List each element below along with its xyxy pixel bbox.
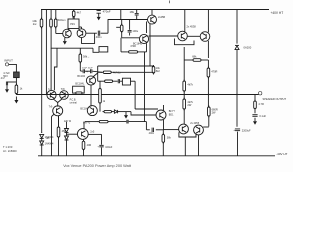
- wire vertical 1 lower: [41, 27, 43, 133]
- preset box3: [122, 78, 130, 85]
- ground zobel: [253, 118, 257, 125]
- terminal input jack: [5, 63, 8, 66]
- ground R5: [14, 97, 18, 104]
- resistor R20: [83, 139, 85, 141]
- wire TR3 emitter down: [146, 22, 148, 34]
- wire mid rail: [17, 94, 259, 96]
- trimmer wiper: [116, 26, 120, 28]
- pcb box: [73, 86, 85, 93]
- svg-text:SPEAKER OUTPUT: SPEAKER OUTPUT: [263, 97, 287, 101]
- capacitor C4 100u: [129, 20, 131, 30]
- wire vert97: [97, 66, 99, 81]
- wire feedback jog: [54, 48, 57, 90]
- terminal speaker: [259, 92, 262, 95]
- svg-text:+40V HT: +40V HT: [271, 11, 284, 15]
- wire TR12 down: [163, 120, 165, 130]
- svg-text:T 1 2V3: T 1 2V3: [3, 145, 13, 149]
- wire vertical 2: [45, 10, 47, 95]
- capacitor C3 18n: [136, 10, 138, 14]
- wire C1 top: [98, 10, 100, 11]
- wire: [83, 149, 85, 155]
- wire: [183, 109, 185, 124]
- svg-text:12K W: 12K W: [64, 120, 72, 123]
- svg-text:1k6: 1k6: [46, 137, 51, 140]
- wire: [183, 91, 185, 99]
- svg-text:470uF: 470uF: [103, 10, 111, 14]
- node out: [208, 94, 209, 95]
- svg-text:BD1: BD1: [169, 113, 174, 116]
- svg-text:2W: 2W: [212, 111, 216, 115]
- resistor R2: [50, 18, 53, 29]
- wire TR11 down: [90, 85, 92, 106]
- capacitor C13: [127, 120, 128, 124]
- wire driver base: [135, 108, 158, 110]
- diode D3: [65, 129, 69, 133]
- ground C1: [97, 13, 101, 20]
- wire TR15 down: [198, 135, 200, 156]
- ground arrow small: [124, 112, 128, 119]
- wire R7 top: [79, 48, 81, 54]
- wire R11 right: [203, 59, 209, 61]
- diode D2: [40, 141, 44, 145]
- resistor R23: [103, 110, 114, 112]
- transistor TR7: [47, 90, 56, 99]
- ground C6: [5, 86, 9, 93]
- wire row3 end: [131, 80, 136, 82]
- svg-text:400n: 400n: [149, 132, 155, 135]
- svg-text:PR1: PR1: [70, 23, 75, 26]
- preset box2: [99, 47, 108, 52]
- svg-text:-40V HT: -40V HT: [276, 152, 287, 156]
- diode D1: [40, 134, 44, 138]
- svg-text:BC184L: BC184L: [75, 83, 85, 86]
- wire left branch: [7, 81, 16, 83]
- wire zobel: [254, 95, 256, 102]
- wire TR4 collector to T5 pair: [149, 35, 178, 37]
- resistor R6: [74, 92, 83, 94]
- wire junction up: [107, 20, 109, 34]
- svg-text:18k: 18k: [130, 10, 135, 14]
- resistor R4 4k7: [72, 10, 75, 19]
- svg-text:10uF 10uF: 10uF 10uF: [82, 68, 93, 70]
- transistor TR11: [86, 76, 95, 85]
- resistor R17: [103, 80, 114, 82]
- svg-text:central: central: [70, 101, 78, 104]
- wire: [110, 121, 127, 123]
- transistor TR2: [77, 29, 86, 38]
- svg-text:40R: 40R: [87, 144, 92, 147]
- wire vertical 1: [41, 10, 43, 20]
- diode D5 0A200: [235, 45, 239, 49]
- wire row2: [98, 71, 102, 73]
- wire TR15 top: [203, 126, 209, 128]
- svg-text:INPUT: INPUT: [4, 58, 13, 62]
- wire: [208, 116, 210, 127]
- resistor R10 4k7: [102, 71, 113, 73]
- resistor R13: [208, 106, 211, 118]
- capacitor C7b: [91, 69, 92, 73]
- resistor R19: [58, 116, 60, 127]
- svg-text:4k7k: 4k7k: [187, 82, 193, 86]
- capacitor C8: [118, 79, 119, 83]
- svg-text:BC184: BC184: [77, 75, 85, 78]
- wire TR5-TR6 link: [187, 35, 200, 37]
- wire TR2 emitter loop: [82, 33, 95, 43]
- svg-text:Vox Venue PA200 Power Amp 200: Vox Venue PA200 Power Amp 200 Watt: [63, 164, 132, 168]
- wire TR12 up: [163, 105, 165, 110]
- wire feedback tap: [51, 47, 93, 49]
- svg-text:68k: 68k: [192, 54, 197, 58]
- svg-text:532om: 532om: [58, 18, 66, 22]
- diode D6: [114, 110, 117, 113]
- wire: [66, 133, 68, 137]
- wire TR14 down: [184, 137, 186, 156]
- artifact tick top: [169, 1, 171, 4]
- svg-text:100u: 100u: [132, 29, 138, 33]
- transistor TR5: [178, 31, 188, 41]
- wire TR3 collector: [151, 10, 153, 16]
- svg-text:1N4004: 1N4004: [45, 143, 54, 146]
- wire diode branch: [236, 10, 238, 44]
- wire TR1 base: [56, 33, 63, 35]
- wire row: [113, 111, 114, 113]
- resistor R12: [207, 60, 209, 68]
- transistor TR13: [77, 129, 88, 140]
- wire TR11 collector: [93, 73, 98, 77]
- transistor TR12: [156, 110, 166, 120]
- svg-text:4n7: 4n7: [1, 77, 6, 80]
- capacitor C9: [252, 115, 257, 117]
- wire box to TR2: [79, 26, 82, 28]
- capacitor C10 2200uF: [235, 129, 240, 131]
- wire TR4 emitter down: [146, 43, 148, 52]
- transistor TR15: [194, 125, 204, 135]
- transistor TR14: [179, 124, 189, 134]
- svg-text:100uF: 100uF: [105, 146, 113, 149]
- wire TR5 emitter loop: [175, 39, 195, 45]
- capacitor C11: [101, 134, 103, 144]
- wire R11 left: [184, 59, 191, 61]
- resistor R16 10R: [254, 100, 257, 111]
- wire RV1 top: [121, 20, 123, 26]
- wire: [207, 77, 209, 107]
- wire R4 top: [73, 10, 75, 12]
- wire row: [85, 121, 98, 123]
- svg-text:2x45B: 2x45B: [158, 16, 165, 19]
- svg-text:58k→: 58k→: [83, 55, 90, 59]
- node preset top: [73, 17, 75, 19]
- wire TR9 emitter left: [52, 114, 55, 117]
- wire rail B: [108, 19, 148, 21]
- capacitor C2 400n: [98, 31, 99, 36]
- svg-text:8k2: 8k2: [156, 70, 161, 73]
- transistor TR4 BC184L: [139, 34, 148, 43]
- resistor R3: [54, 18, 57, 29]
- capacitor C12 400n: [147, 129, 150, 131]
- transistor TR3: [148, 15, 157, 24]
- svg-text:+: +: [233, 128, 235, 132]
- wire TR6 collector up: [207, 10, 209, 33]
- wire TR13 base: [67, 133, 78, 135]
- resistor R7 58k: [79, 53, 82, 64]
- wire emitters join: [54, 99, 62, 103]
- wire diode chain: [66, 122, 68, 129]
- wire TR5 collector up: [184, 10, 186, 32]
- wire diode chain top: [41, 132, 43, 135]
- wire to base: [15, 94, 17, 95]
- wire vertical 4 lower: [55, 27, 57, 34]
- wire vertical 4: [55, 10, 57, 20]
- wire diode down: [236, 50, 238, 95]
- svg-text:2x 4538: 2x 4538: [187, 25, 197, 29]
- transistor TR1: [63, 29, 72, 38]
- svg-text:A=. 2x5000: A=. 2x5000: [3, 149, 17, 153]
- svg-text:4.7R: 4.7R: [258, 102, 264, 106]
- capacitor C5 input: [14, 72, 20, 78]
- wire RV1 down: [121, 32, 123, 38]
- wire to TR12 base: [131, 112, 156, 115]
- wire vertical 3 lower: [50, 27, 52, 91]
- wire row3: [98, 80, 104, 82]
- transistor TR10: [87, 106, 97, 116]
- diode D4: [65, 136, 69, 140]
- preset box PR1: [68, 19, 79, 29]
- svg-text:4k7: 4k7: [77, 10, 82, 14]
- wire input: [9, 64, 17, 72]
- svg-text:2x 4055: 2x 4055: [190, 122, 200, 125]
- svg-text:0.1uF: 0.1uF: [259, 114, 266, 118]
- wire row1: [98, 65, 154, 67]
- wire R8: [121, 51, 127, 53]
- capacitor C1 470uF: [97, 11, 101, 14]
- transistor TR8: [60, 91, 69, 100]
- wire: [237, 132, 239, 156]
- wire: [41, 138, 43, 141]
- wire: [15, 78, 17, 85]
- wire: [114, 80, 118, 82]
- transistor TR6: [200, 32, 210, 42]
- wire TR14-15 emitter loop: [179, 132, 196, 137]
- wire TR13 collector: [83, 122, 85, 129]
- wire TR9 down: [58, 116, 60, 128]
- svg-text:470R: 470R: [130, 45, 136, 48]
- wire R22 down: [99, 103, 101, 112]
- resistor RV1: [120, 24, 123, 34]
- resistor R11 68k: [192, 59, 203, 62]
- capacitor C6 4n7: [6, 82, 7, 86]
- wire: [58, 137, 60, 156]
- svg-text:400n: 400n: [96, 35, 102, 39]
- svg-text:470R: 470R: [211, 70, 217, 74]
- wire TR14 base: [163, 129, 178, 131]
- wire rail A to rail B: [120, 10, 122, 20]
- wire tail: [57, 103, 59, 107]
- wire +40V rail: [41, 9, 269, 11]
- wire: [236, 95, 238, 127]
- resistor R15: [183, 98, 186, 111]
- wire: [66, 140, 68, 156]
- resistor R14: [183, 80, 186, 93]
- svg-text:Tr9: Tr9: [49, 105, 53, 108]
- wire vertical 3: [50, 10, 52, 20]
- wire bottom rail: [38, 155, 275, 157]
- svg-text:2x5: 2x5: [90, 130, 95, 133]
- resistor R22 vertical: [99, 81, 101, 88]
- wire: [80, 70, 82, 72]
- wire corner to box: [93, 48, 99, 52]
- svg-text:2200uF: 2200uF: [242, 128, 251, 132]
- wire: [79, 62, 81, 71]
- resistor R8: [127, 51, 139, 53]
- wire: [41, 145, 43, 156]
- capacitor C7a: [83, 69, 84, 73]
- wire vert150: [149, 24, 151, 66]
- wire vert142: [144, 52, 146, 122]
- resistor R1 10k: [40, 18, 43, 29]
- wire vert146 low: [145, 122, 147, 130]
- wire vert135: [134, 81, 136, 109]
- wire RV1 to TR4 base: [122, 37, 140, 39]
- svg-text:0A200: 0A200: [244, 45, 252, 49]
- ground TR1 emitter: [63, 38, 67, 45]
- wire: [129, 121, 147, 123]
- wire cap to junction: [101, 32, 108, 34]
- wire: [254, 109, 256, 114]
- wire row2b: [113, 71, 154, 73]
- resistor R18: [98, 120, 110, 122]
- svg-text:2W: 2W: [187, 103, 191, 107]
- transistor TR9: [53, 106, 63, 116]
- resistor R9 vert: [152, 65, 155, 75]
- resistor R5 1k: [15, 84, 18, 96]
- resistor R21: [162, 130, 164, 135]
- wire TR6 down: [207, 41, 209, 58]
- wire: [162, 142, 164, 156]
- wire box to TR1: [68, 29, 70, 30]
- wire TR13 emitter right: [88, 133, 101, 135]
- wire TR2 to cap: [86, 32, 97, 34]
- wire vert: [120, 38, 122, 52]
